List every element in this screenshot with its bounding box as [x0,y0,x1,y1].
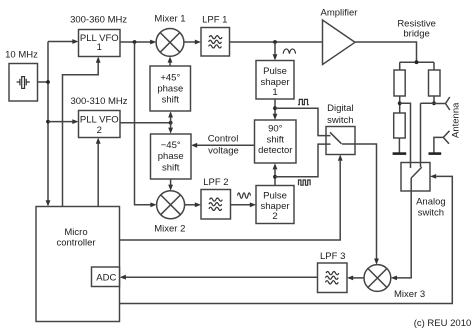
antenna connector top [446,97,450,110]
svg-text:Digital: Digital [327,103,353,114]
svg-text:Pulse: Pulse [263,66,287,77]
wire LPF1-amp tap down to pulse shaper 1 [274,42,276,55]
symbol sine wave [283,49,295,54]
wire LPF2 out to pulse shaper 2 [231,204,251,206]
svg-text:300-310 MHz: 300-310 MHz [70,96,127,107]
svg-text:Analog: Analog [416,197,446,208]
wire amplifier out to bridge [355,42,417,62]
wire LPF3 out to ADC [126,276,318,278]
svg-text:Pulse: Pulse [263,190,287,201]
wire digital switch output to mixer 3 [342,144,377,259]
svg-text:Antenna: Antenna [451,102,462,138]
svg-text:+45°: +45° [160,72,180,83]
wire control voltage from 90 det to -45 box [197,144,255,146]
svg-text:1: 1 [97,42,102,53]
svg-text:300-360 MHz: 300-360 MHz [70,14,127,25]
svg-text:controller: controller [56,238,95,249]
wire bridge right leg [433,62,435,103]
wire -45 down into mixer2 [170,179,172,185]
svg-text:1: 1 [272,87,277,98]
wire R3 to ground [398,138,400,153]
svg-text:(c) REU 2010: (c) REU 2010 [414,318,472,329]
wire into PLL VFO 1 [48,41,73,43]
crystal oscillator box 10 MHz [9,64,38,102]
wire analog switch output to mixer 3 [397,178,411,278]
wire PLL2 output to phase shifters [120,122,171,124]
wire bridge left leg [399,62,401,113]
ground antenna [429,152,442,155]
svg-text:switch: switch [418,208,444,219]
svg-text:Mixer 3: Mixer 3 [394,289,425,300]
svg-text:Micro: Micro [64,227,87,238]
svg-text:Mixer 1: Mixer 1 [154,13,185,24]
node bridge left tap [398,101,402,105]
wire PLL1 output to mixer 1 [120,41,151,43]
analog switch box [401,163,430,192]
svg-text:2: 2 [97,125,102,136]
digital switch box [326,127,355,155]
-45 degree phase shift box [151,134,192,179]
node pulse shaper 2 output tee [273,175,277,179]
pulse shaper 1 box [256,61,294,100]
wire pulse shaper 1 down to 90 det [274,99,276,114]
filter symbol LPF1 [209,36,222,48]
node pulse shaper 1 tap [273,40,277,44]
wire LPF1 to amplifier [230,41,323,43]
pulse shaper 2 box [256,186,294,224]
ground bridge left [393,152,407,155]
node bridge feed [415,60,419,64]
wire bus arrow into micro controller [46,200,51,206]
switch contact stubs digital [325,136,330,145]
wire splitter up into +45 box [170,117,172,129]
svg-text:90°: 90° [268,124,283,135]
svg-text:PLL VFO: PLL VFO [80,115,119,126]
wire pulse shaper 1 to digital switch [275,108,331,135]
node bus-PLL2 junction [46,120,50,124]
node crystal-bus junction [46,80,50,84]
switch contact stubs analog [411,162,421,168]
svg-text:shift: shift [267,134,285,145]
wire PLL1 output down to mixer 2 [135,42,151,205]
PLL VFO 2 box U2 [79,111,121,138]
wire right tap to analog switch [421,103,435,167]
svg-text:−45°: −45° [161,140,181,151]
svg-text:shift: shift [162,94,180,105]
node phase splitter junction [169,121,173,125]
svg-text:voltage: voltage [208,146,239,157]
amplifier A1 [323,20,356,65]
wire splitter down into -45 box [168,128,173,134]
symbol sine wave small [238,193,251,198]
node PLL1 output tee [133,40,137,44]
wire +45 up into mixer1 [169,62,171,66]
svg-text:detector: detector [258,145,292,156]
svg-text:bridge: bridge [403,29,429,40]
wire mixer3 out to LPF3 [353,277,364,279]
LPF 1 box [201,28,230,57]
wire micro to PLL VFO 2 tune [97,144,99,207]
wire into PLL VFO 2 [48,121,73,123]
wire micro to PLL VFO 1 tune [63,63,99,207]
svg-text:10 MHz: 10 MHz [5,50,38,61]
wire micro control to analog switch [120,176,453,303]
wire pulse shaper 2 to digital switch [275,144,331,177]
node bridge right tap [432,101,436,105]
wire crystal output [38,81,49,83]
svg-text:phase: phase [157,83,183,94]
svg-text:2: 2 [272,211,277,222]
symbol square wave 1 [298,99,309,104]
resistive bridge top rail [400,61,434,63]
svg-text:Amplifier: Amplifier [321,7,358,18]
switch arm analog [411,167,422,178]
PLL VFO 1 box U1 [79,30,121,57]
ADC box [92,267,120,287]
switch arm digital [330,132,342,144]
svg-text:LPF 1: LPF 1 [202,14,227,25]
wire pulse shaper 2 up to 90 det [274,169,276,185]
svg-text:Mixer 2: Mixer 2 [154,224,185,235]
node pulse shaper 1 output tee [273,106,277,110]
LPF 2 box [201,190,231,220]
svg-text:switch: switch [327,115,353,126]
symbol square wave 2 [299,180,311,185]
wire reference bus [47,42,49,201]
LPF 3 box [318,263,348,293]
crystal symbol [17,77,30,89]
svg-text:ADC: ADC [96,273,116,284]
filter symbol LPF3 [325,272,338,284]
mixer M2 [157,191,185,219]
wire left tap to analog switch [400,103,411,168]
resistor R1 bridge top-left [394,70,405,96]
resistor R3 bridge lower-left [394,113,406,138]
mixer M1 [156,29,184,57]
svg-text:LPF 2: LPF 2 [203,177,228,188]
wire micro control to digital switch [120,161,341,240]
wire mixer2 out to LPF2 [185,204,196,206]
wire right tap to antenna connector [434,103,446,105]
svg-text:LPF 3: LPF 3 [320,251,345,262]
+45 degree phase shift box [150,66,191,111]
svg-text:Control: Control [208,134,239,145]
resistor R2 bridge top-right [429,70,441,96]
filter symbol LPF2 [209,198,222,210]
micro controller box [36,207,120,322]
svg-text:phase: phase [158,151,184,162]
svg-text:shift: shift [162,162,180,173]
90 degree shift detector box [255,120,297,163]
antenna connector ground side [434,131,450,153]
mixer M3 [364,265,391,292]
wire mixer1 out to LPF1 [184,41,195,43]
